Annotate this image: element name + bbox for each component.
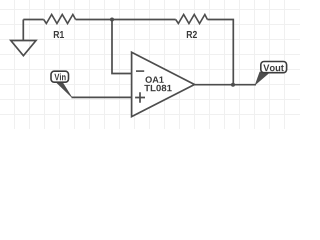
label OA1 [146,76,164,82]
Vin tail [56,82,72,97]
node junction top [110,18,114,22]
wire: R2 to right corner and down to output [207,20,233,85]
label Vout text [263,65,284,72]
wire: inverting input (junction down and right to op-amp) [112,20,132,74]
wire: ground stem [22,20,24,41]
wire: top net from ground corner to R1 [23,19,43,21]
op-amp minus sign [136,70,144,72]
Vout tail [255,72,270,85]
node junction output [231,83,235,87]
label R1 [54,31,64,38]
resistor R1 [44,15,76,24]
wire: output from op-amp to Vout [195,84,257,86]
label Vin text [54,73,65,80]
op-amp OA1 triangle [132,52,195,116]
label TL081 [144,85,171,91]
label R2 [187,31,197,38]
Vin label box [51,71,69,82]
op-amp plus sign [135,92,145,103]
wire: R1 to R2 [76,19,176,21]
resistor R2 [176,15,208,24]
wire: non-inverting input from Vin [72,96,132,98]
Vout label box [261,62,287,73]
ground [11,41,36,56]
